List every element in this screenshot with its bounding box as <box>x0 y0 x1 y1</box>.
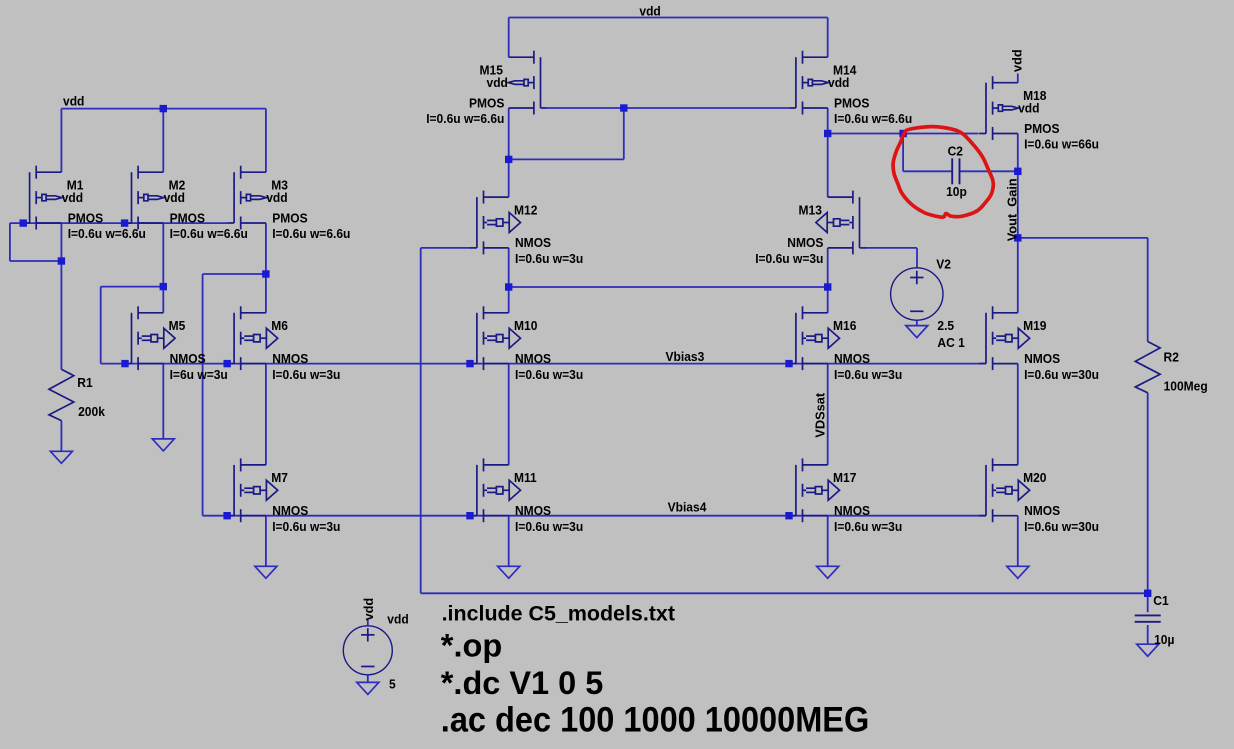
svg-text:I=0.6u w=3u: I=0.6u w=3u <box>272 367 340 382</box>
svg-text:R1: R1 <box>77 375 92 390</box>
svg-text:I=0.6u w=3u: I=0.6u w=3u <box>515 519 583 534</box>
svg-text:10p: 10p <box>946 184 967 199</box>
svg-text:2.5: 2.5 <box>937 318 954 333</box>
svg-text:M12: M12 <box>514 202 537 217</box>
svg-text:100Meg: 100Meg <box>1164 379 1208 394</box>
svg-text:vdd: vdd <box>639 4 660 19</box>
svg-text:vdd: vdd <box>828 75 849 90</box>
svg-text:I=0.6u w=6.6u: I=0.6u w=6.6u <box>170 226 248 241</box>
svg-text:10µ: 10µ <box>1154 632 1174 647</box>
svg-text:I=0.6u w=3u: I=0.6u w=3u <box>272 519 340 534</box>
svg-text:R2: R2 <box>1164 350 1179 365</box>
svg-text:vdd: vdd <box>387 611 408 626</box>
svg-text:NMOS: NMOS <box>1024 503 1061 518</box>
svg-text:VDSsat: VDSsat <box>813 392 828 438</box>
svg-text:.ac dec 100 1000 10000MEG: .ac dec 100 1000 10000MEG <box>441 701 870 740</box>
svg-text:I=6u w=3u: I=6u w=3u <box>170 367 228 382</box>
svg-text:PMOS: PMOS <box>834 95 870 110</box>
svg-text:C2: C2 <box>948 144 963 159</box>
svg-text:Vbias3: Vbias3 <box>666 349 705 364</box>
svg-text:NMOS: NMOS <box>787 235 824 250</box>
svg-text:NMOS: NMOS <box>1024 351 1061 366</box>
svg-text:Vout_Gain: Vout_Gain <box>1004 178 1019 241</box>
svg-text:200k: 200k <box>78 404 106 419</box>
svg-text:vdd: vdd <box>266 190 287 205</box>
svg-text:I=0.6u w=6.6u: I=0.6u w=6.6u <box>272 226 350 241</box>
svg-text:M13: M13 <box>799 202 822 217</box>
svg-text:I=0.6u w=30u: I=0.6u w=30u <box>1024 367 1099 382</box>
svg-text:NMOS: NMOS <box>272 503 309 518</box>
svg-text:I=0.6u w=6.6u: I=0.6u w=6.6u <box>68 226 146 241</box>
svg-text:M11: M11 <box>514 470 537 485</box>
svg-text:NMOS: NMOS <box>834 503 871 518</box>
svg-text:V2: V2 <box>936 257 951 272</box>
svg-text:I=0.6u w=66u: I=0.6u w=66u <box>1024 137 1099 152</box>
svg-text:NMOS: NMOS <box>272 351 309 366</box>
svg-text:I=0.6u w=30u: I=0.6u w=30u <box>1024 519 1099 534</box>
svg-text:NMOS: NMOS <box>170 351 207 366</box>
svg-text:I=0.6u w=3u: I=0.6u w=3u <box>515 251 583 266</box>
svg-text:AC 1: AC 1 <box>937 335 964 350</box>
svg-text:PMOS: PMOS <box>170 210 206 225</box>
svg-text:NMOS: NMOS <box>515 235 552 250</box>
svg-text:NMOS: NMOS <box>834 351 871 366</box>
svg-text:M6: M6 <box>271 318 288 333</box>
svg-text:I=0.6u w=6.6u: I=0.6u w=6.6u <box>426 111 504 126</box>
svg-text:M10: M10 <box>514 318 537 333</box>
svg-text:I=0.6u w=3u: I=0.6u w=3u <box>515 367 583 382</box>
svg-text:vdd: vdd <box>361 598 376 621</box>
svg-text:NMOS: NMOS <box>515 503 552 518</box>
svg-text:PMOS: PMOS <box>469 95 505 110</box>
svg-text:M16: M16 <box>833 318 856 333</box>
svg-text:I=0.6u w=3u: I=0.6u w=3u <box>834 519 902 534</box>
svg-text:NMOS: NMOS <box>515 351 552 366</box>
svg-text:M5: M5 <box>169 318 186 333</box>
svg-text:I=0.6u w=3u: I=0.6u w=3u <box>755 251 823 266</box>
svg-text:vdd: vdd <box>63 93 84 108</box>
svg-text:vdd: vdd <box>1018 101 1039 116</box>
svg-text:vdd: vdd <box>164 190 185 205</box>
svg-text:C1: C1 <box>1153 593 1168 608</box>
svg-text:PMOS: PMOS <box>272 210 308 225</box>
svg-text:.include C5_models.txt: .include C5_models.txt <box>442 602 675 626</box>
svg-text:vdd: vdd <box>487 75 508 90</box>
svg-text:PMOS: PMOS <box>68 210 104 225</box>
svg-text:Vbias4: Vbias4 <box>668 500 708 515</box>
svg-text:M19: M19 <box>1023 318 1046 333</box>
svg-text:vdd: vdd <box>1010 49 1025 72</box>
svg-text:M17: M17 <box>833 470 856 485</box>
svg-text:M7: M7 <box>271 470 288 485</box>
svg-text:*.dc V1 0 5: *.dc V1 0 5 <box>441 665 604 701</box>
svg-text:PMOS: PMOS <box>1024 121 1060 136</box>
svg-text:I=0.6u w=3u: I=0.6u w=3u <box>834 367 902 382</box>
svg-text:I=0.6u w=6.6u: I=0.6u w=6.6u <box>834 111 912 126</box>
svg-text:5: 5 <box>389 677 396 692</box>
svg-text:vdd: vdd <box>62 190 83 205</box>
svg-text:*.op: *.op <box>441 627 503 663</box>
svg-text:M20: M20 <box>1023 470 1046 485</box>
